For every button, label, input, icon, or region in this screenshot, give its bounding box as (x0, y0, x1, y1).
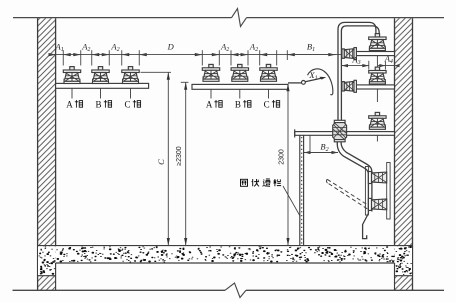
bottom ground line (13, 289, 445, 291)
svg-text:D: D (167, 42, 175, 52)
conduit riser pipe (338, 22, 379, 120)
dimension B1 line (287, 54, 336, 56)
wall-side insulator H2 (row2) (342, 80, 356, 92)
wall-side insulator H1 (row1) (342, 48, 356, 60)
label B-phase group2 (235, 100, 251, 110)
post insulator V1 (row1) (369, 34, 386, 51)
busbar conductor to disconnector hinge (288, 82, 301, 84)
phase leader lines group1 (72, 88, 131, 98)
disconnector blade with arrow (305, 77, 326, 82)
busbar support shelf 2 (192, 84, 288, 89)
blade swing arc X1 (308, 69, 333, 95)
dimension chain line (49, 55, 395, 66)
label A-phase group2 (206, 100, 222, 110)
mounting plate left (365, 167, 368, 216)
svg-text:4: 4 (398, 263, 402, 270)
mounting plate right (on wall) (387, 163, 390, 220)
dimension extension ticks (63, 50, 276, 65)
post insulator group2 B-phase (231, 64, 248, 81)
downpipe from in-line insulator (337, 142, 372, 239)
svg-text:≥2300: ≥2300 (176, 146, 183, 166)
disconnector hinge (302, 81, 306, 85)
svg-text:A: A (206, 100, 213, 110)
support arm row 3 (295, 129, 395, 137)
support arm row 1 (343, 52, 395, 56)
svg-text:B: B (235, 100, 241, 110)
right wall (hatched) (395, 18, 413, 290)
label C-phase group1 (124, 100, 140, 110)
svg-text:C: C (124, 100, 130, 110)
A3 arrows (342, 64, 400, 67)
dimension 2300 vertical line (286, 84, 289, 246)
post insulator group2 A-phase (202, 64, 219, 81)
svg-text:A: A (66, 100, 73, 110)
svg-text:2300: 2300 (278, 149, 285, 165)
left wall (hatched) (38, 18, 56, 290)
support arm row 2 (343, 85, 395, 89)
post insulator group2 C-phase (260, 64, 277, 81)
dimension C vertical line (167, 72, 170, 245)
svg-text:B: B (95, 100, 101, 110)
svg-text:C: C (156, 159, 166, 165)
floor concrete speckle (39, 247, 412, 275)
post insulator group1 B-phase (92, 67, 109, 84)
wall insulator H3 (368, 172, 386, 184)
post insulator V3 (row3) (369, 112, 386, 129)
busbar support shelf 1 (56, 83, 149, 88)
ceiling break symbol (232, 9, 247, 27)
in-line insulator on conduit (333, 120, 347, 142)
dimension C reference line (141, 71, 172, 73)
label B-phase group1 (95, 100, 111, 110)
mesh barrier (wang zhuang zhe lan) (300, 135, 310, 245)
dimension arrows (49, 53, 336, 56)
label A-phase group1 (66, 100, 82, 110)
svg-text:C: C (264, 100, 270, 110)
bottom break symbol (225, 283, 246, 298)
label mesh barrier with leader (283, 186, 300, 217)
phase leader lines group2 (211, 89, 269, 98)
tick B1 left (286, 50, 288, 60)
dimension B2 (304, 151, 338, 154)
label C-phase group2 (264, 100, 280, 110)
post insulator group1 C-phase (122, 67, 139, 84)
post insulator group1 A-phase (63, 67, 80, 84)
ceiling line (13, 17, 444, 19)
A3/A4 extension ticks (369, 61, 386, 70)
equipment centerline (376, 56, 378, 142)
dimension >=2300 reference (181, 81, 189, 83)
dashed blade (open position) (327, 179, 368, 209)
dimension >=2300 vertical line (184, 82, 187, 245)
wall insulator H4 (368, 198, 386, 210)
floor slab (38, 246, 413, 276)
post insulator V2 (row2) (369, 67, 386, 84)
